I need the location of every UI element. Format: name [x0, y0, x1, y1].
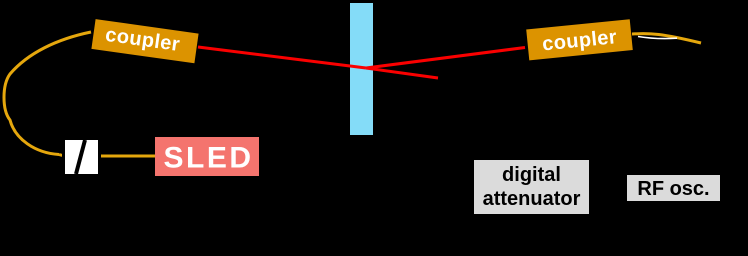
left border edge — [0, 0, 2, 251]
splice slash — [76, 140, 85, 174]
RF oscillator box — [627, 175, 720, 201]
beam: reflected (glass plate to right coupler) — [366, 48, 525, 69]
coupler U2 (right) — [526, 19, 633, 60]
svg-text:SLED: SLED — [163, 142, 253, 175]
fiber: right coupler output — [632, 34, 701, 43]
top border bar — [0, 0, 748, 5]
right border edge — [746, 0, 748, 251]
SLED source box — [155, 137, 259, 176]
digital attenuator box — [474, 160, 589, 214]
beam: incident (left coupler to glass plate) — [198, 47, 366, 68]
bottom border bar — [0, 243, 748, 251]
fiber loop: left coupler to splice — [4, 32, 91, 155]
svg-text:attenuator: attenuator — [483, 188, 581, 210]
beam: transmitted (through glass plate) — [366, 68, 438, 78]
svg-text:RF osc.: RF osc. — [637, 178, 709, 200]
hidden white return fiber — [638, 37, 677, 39]
splice / isolator backing frame — [62, 137, 101, 177]
glass plate (scanning mirror) — [350, 3, 373, 135]
splice / isolator body — [65, 140, 98, 174]
fiber: splice to SLED — [59, 155, 155, 157]
coupler U1 (left) — [91, 19, 198, 63]
svg-text:digital: digital — [502, 164, 561, 186]
